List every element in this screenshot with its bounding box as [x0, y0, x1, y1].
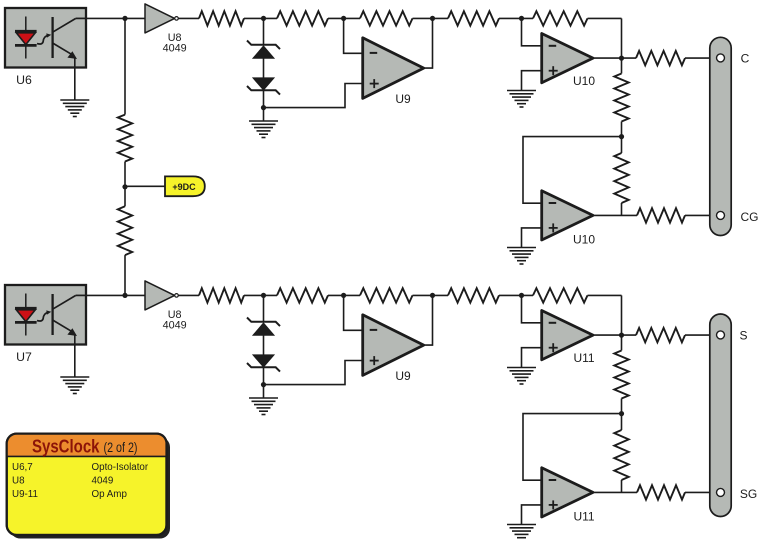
wire zener to ground node [263, 367, 265, 398]
opto-isolator U6 [5, 8, 86, 87]
wire U10 (1st) output [593, 57, 636, 59]
node zener tap a [261, 16, 266, 21]
op-amp U9 (bottom) [363, 315, 424, 383]
svg-text:U8: U8 [12, 476, 25, 487]
wire U6 output to buffer [86, 17, 145, 19]
feedback resistor R5a [533, 11, 588, 25]
node zener tap b [261, 293, 266, 298]
node zener ground a [261, 105, 266, 110]
feedback resistor R3a [360, 11, 413, 25]
svg-text:4049: 4049 [92, 476, 114, 487]
output resistor to C [636, 51, 716, 65]
svg-text:U9-11: U9-11 [12, 489, 38, 500]
op-amp U11 (1st) [542, 311, 595, 366]
svg-text:SysClock: SysClock [32, 435, 100, 456]
svg-text:U10: U10 [573, 74, 595, 88]
wire to U9 non-inverting input b [264, 361, 363, 385]
svg-text:4049: 4049 [163, 42, 187, 54]
wire U10 (2nd) output [593, 214, 637, 216]
connector bar S/SG [710, 314, 731, 517]
ground below U7 [60, 345, 89, 394]
legend box SysClock [7, 434, 170, 539]
resistor R4a [448, 11, 499, 25]
wire buffer output [179, 17, 200, 19]
wire [328, 294, 360, 296]
wire to U10 (1st) inverting input [522, 18, 542, 45]
ground at U11 (1st) [507, 368, 536, 385]
node divider mid a [619, 134, 624, 139]
op-amp U9 (top) [363, 38, 424, 106]
wire U10 (1st) non-inverting input to ground [522, 71, 542, 91]
ground below zeners b [249, 398, 278, 415]
wire divider mid to U11 (2nd) inverting input [523, 414, 622, 481]
svg-text:U6,7: U6,7 [12, 462, 33, 473]
zener diode pair a - wire from node [263, 18, 265, 44]
output resistor to S [636, 328, 716, 342]
wire feedback corner to U11 output [588, 295, 622, 335]
wire U10 (2nd) non-inverting input to ground [522, 228, 542, 248]
svg-text:U7: U7 [16, 350, 32, 364]
terminal CG [717, 210, 759, 224]
node U11 (1st) output [619, 333, 624, 338]
node U11 inverting input [519, 293, 524, 298]
zener diode D1b [247, 318, 280, 336]
wire U9 output a [424, 18, 433, 68]
terminal S [717, 329, 748, 343]
ground at U10 (2nd) [507, 248, 536, 265]
node U10 inverting input [519, 16, 524, 21]
wire between zeners [263, 335, 265, 355]
wire U7 output to buffer [86, 294, 145, 296]
wire feedback corner to U10 output [588, 18, 622, 58]
svg-text:Op Amp: Op Amp [92, 489, 128, 500]
legend row U9-11 Op Amp [12, 489, 127, 500]
legend title SysClock (2 of 2) [32, 435, 138, 456]
wire to +9DC flag [125, 185, 165, 187]
resistor R1b [199, 288, 244, 302]
node +9DC [122, 184, 127, 189]
pull-up resistor lower [118, 187, 132, 296]
pull-up resistor upper [118, 18, 132, 186]
+9DC power flag [165, 176, 205, 196]
resistor R4b [448, 288, 499, 302]
wire between zeners [263, 58, 265, 78]
wire buffer output [179, 294, 200, 296]
op-amp U11 (2nd) [542, 468, 595, 524]
resistor R2a [277, 11, 328, 25]
op-amp U10 (2nd) [542, 191, 596, 247]
wire U11 (1st) non-inverting input to ground [522, 348, 542, 368]
legend row U8 4049 [12, 476, 113, 487]
feedback resistor R3b [360, 288, 413, 302]
zener diode pair b - wire from node [263, 295, 265, 321]
opto-isolator U7 [5, 285, 86, 364]
wire to U9 non-inverting input a [264, 84, 363, 108]
svg-text:U10: U10 [573, 233, 595, 247]
ground below zeners a [249, 121, 278, 138]
zener diode D2a [247, 78, 280, 95]
zener diode D1a [247, 41, 280, 59]
svg-text:Opto-Isolator: Opto-Isolator [92, 462, 149, 473]
wire to U11 (1st) inverting input [522, 295, 542, 322]
wire [413, 294, 449, 296]
wire [244, 17, 277, 19]
inverter U8 (bottom) 4049 [145, 281, 187, 331]
ground at U10 (1st) [507, 91, 536, 108]
wire [244, 294, 277, 296]
wire to U9 inverting input b [344, 295, 363, 330]
wire divider mid to U10 (2nd) inverting input [523, 137, 622, 204]
divider resistor upper a [614, 58, 628, 137]
wire to U9 inverting input a [344, 18, 363, 53]
svg-text:U6: U6 [16, 73, 32, 87]
terminal C [717, 52, 750, 66]
terminal SG [717, 487, 758, 501]
ground below U6 [60, 68, 89, 117]
svg-text:SG: SG [740, 487, 757, 501]
node divider mid b [619, 411, 624, 416]
wire [413, 17, 449, 19]
resistor R2b [277, 288, 328, 302]
divider resistor upper b [614, 335, 628, 414]
wire U9 output b [424, 295, 433, 345]
wire zener to ground node [263, 90, 265, 121]
node U9 output feedback a [430, 16, 435, 21]
wire [499, 294, 533, 296]
wire U11 (2nd) non-inverting input to ground [522, 505, 542, 525]
svg-text:S: S [739, 329, 747, 343]
svg-text:U9: U9 [395, 92, 411, 106]
inverter U8 (top) 4049 [145, 4, 187, 54]
node top row pull-up tap [122, 16, 127, 21]
ground at U11 (2nd) [507, 525, 536, 540]
svg-text:+9DC: +9DC [172, 182, 196, 192]
op-amp U10 (1st) [542, 34, 596, 89]
node zener ground b [261, 382, 266, 387]
svg-text:U9: U9 [395, 369, 411, 383]
wire U11 (1st) output [593, 334, 636, 336]
divider resistor lower b [614, 414, 628, 493]
output resistor to CG [637, 208, 716, 222]
node U9 inverting input b [341, 293, 346, 298]
wire [328, 17, 360, 19]
output resistor to SG [637, 485, 716, 499]
feedback resistor R5b [533, 288, 588, 302]
node U9 inverting input a [341, 16, 346, 21]
svg-text:U11: U11 [573, 510, 594, 524]
svg-text:CG: CG [741, 210, 759, 224]
svg-text:4049: 4049 [163, 319, 187, 331]
legend row U6,7 Opto-Isolator [12, 462, 149, 473]
wire [499, 17, 533, 19]
divider resistor lower a [614, 137, 628, 216]
resistor R1a [199, 11, 244, 25]
svg-text:(2 of 2): (2 of 2) [104, 440, 138, 455]
node U9 output feedback b [430, 293, 435, 298]
connector bar C/CG [710, 37, 731, 235]
zener diode D2b [247, 355, 280, 372]
svg-text:C: C [741, 52, 750, 66]
svg-text:U11: U11 [573, 351, 594, 365]
wire U11 (2nd) output [593, 491, 637, 493]
node bottom row pull-up tap [122, 293, 127, 298]
node U10 (1st) output [619, 56, 624, 61]
